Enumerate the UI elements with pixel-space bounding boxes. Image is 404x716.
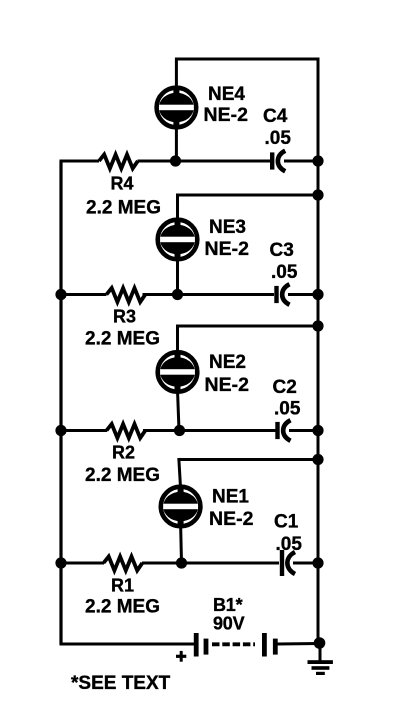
junction on left rail at R3 row bbox=[55, 289, 66, 300]
svg-text:2.2 MEG: 2.2 MEG bbox=[86, 198, 161, 219]
resistor R1 bbox=[104, 557, 143, 571]
label R2 bbox=[112, 443, 135, 463]
label C1 bbox=[274, 512, 299, 533]
label C1 value .05 bbox=[276, 534, 303, 555]
svg-text:R1: R1 bbox=[111, 576, 134, 596]
label R1 value 2.2 MEG bbox=[85, 597, 160, 618]
svg-text:R3: R3 bbox=[113, 307, 136, 327]
capacitor C2 bbox=[275, 420, 290, 441]
label C3 value .05 bbox=[271, 262, 298, 283]
wire: battery to right rail bbox=[277, 642, 320, 646]
svg-text:NE-2: NE-2 bbox=[209, 508, 254, 530]
junction on left rail at R2 row bbox=[55, 425, 66, 436]
wire: NE3 top lead bbox=[176, 194, 179, 223]
wire: node to C2 bbox=[180, 429, 277, 432]
svg-text:NE3: NE3 bbox=[209, 217, 246, 238]
wire: node to C3 bbox=[178, 293, 275, 296]
junction on right rail at NE3 top bbox=[312, 189, 323, 200]
neon lamp NE4 bbox=[157, 87, 197, 129]
svg-text:90V: 90V bbox=[213, 614, 245, 634]
label R3 bbox=[113, 307, 136, 327]
wire: NE2 top wire bbox=[178, 325, 320, 328]
capacitor C3 bbox=[274, 284, 289, 305]
wire: NE1 bottom lead bbox=[179, 524, 183, 563]
resistor R3 bbox=[107, 288, 146, 302]
svg-text:NE-2: NE-2 bbox=[205, 374, 250, 396]
junction on right rail at NE2 top bbox=[312, 320, 323, 331]
label R3 value 2.2 MEG bbox=[85, 329, 160, 350]
wire: R1 row from left rail bbox=[61, 562, 104, 565]
svg-text:C3: C3 bbox=[270, 240, 294, 261]
wire: R4 row from left rail to node bbox=[60, 160, 100, 163]
label R2 value 2.2 MEG bbox=[85, 465, 160, 486]
svg-text:2.2 MEG: 2.2 MEG bbox=[85, 597, 160, 618]
junction on right rail at NE1 top bbox=[312, 454, 323, 465]
svg-text:NE-2: NE-2 bbox=[204, 104, 249, 126]
neon lamp NE3 bbox=[158, 219, 198, 261]
svg-text:*SEE TEXT: *SEE TEXT bbox=[71, 673, 171, 694]
svg-text:R4: R4 bbox=[111, 174, 134, 194]
wire: node to C1 bbox=[182, 562, 280, 565]
label C4 value .05 bbox=[265, 128, 292, 149]
wire: NE1 top lead bbox=[179, 458, 181, 489]
resistor R4 bbox=[99, 155, 138, 169]
wire: R2 row from left rail bbox=[61, 429, 107, 432]
wire: NE3 top wire bbox=[178, 194, 320, 197]
svg-text:NE2: NE2 bbox=[209, 352, 246, 373]
resistor R2 bbox=[107, 424, 146, 438]
wire: NE4 top wire bbox=[176, 58, 319, 61]
junction on right rail at C2 row bbox=[312, 425, 323, 436]
junction node NE2/R2/C2 bbox=[174, 425, 185, 436]
svg-text:2.2 MEG: 2.2 MEG bbox=[85, 465, 160, 486]
battery plus sign bbox=[176, 651, 186, 662]
label NE3 bbox=[209, 217, 246, 238]
svg-text:2.2 MEG: 2.2 MEG bbox=[85, 329, 160, 350]
wire: R3 to NE3 node bbox=[143, 293, 178, 296]
wire: C4 to right rail bbox=[284, 160, 318, 163]
neon lamp NE1 bbox=[161, 486, 201, 528]
wire: bottom wire from left rail to battery bbox=[60, 643, 195, 646]
junction node NE3/R3/C3 bbox=[172, 289, 183, 300]
wire: NE1 top wire bbox=[179, 458, 320, 461]
label 90V bbox=[213, 614, 245, 634]
wire: R2 to NE2 node bbox=[143, 429, 179, 432]
label B1* bbox=[213, 595, 243, 615]
wire: NE4 bottom lead bbox=[175, 125, 178, 161]
junction node NE1/R1/C1 bbox=[176, 557, 187, 568]
svg-text:C2: C2 bbox=[273, 377, 297, 398]
wire: R3 row from left rail bbox=[61, 293, 107, 296]
wire: C2 to right rail bbox=[289, 429, 318, 432]
label C2 value .05 bbox=[274, 399, 301, 420]
svg-text:.05: .05 bbox=[265, 128, 292, 149]
svg-text:NE1: NE1 bbox=[212, 487, 249, 508]
junction on left rail at R1 row bbox=[55, 557, 66, 568]
wire: R4 to NE4 node bbox=[138, 160, 177, 163]
junction node at ground bbox=[314, 637, 326, 649]
svg-text:NE-2: NE-2 bbox=[205, 238, 250, 260]
wire: C1 to right rail bbox=[293, 562, 318, 565]
wire: R1 to NE1 node bbox=[142, 562, 182, 565]
wire: NE4 top lead bbox=[175, 58, 178, 91]
junction on right rail at C4 row bbox=[312, 155, 323, 166]
label NE1 bbox=[212, 487, 249, 508]
battery B1 bbox=[194, 633, 278, 657]
wire: NE2 bottom lead bbox=[178, 390, 180, 431]
label NE-2 (NE4) bbox=[204, 104, 249, 126]
label R4 value 2.2 MEG bbox=[86, 198, 161, 219]
svg-text:.05: .05 bbox=[274, 399, 301, 420]
svg-text:.05: .05 bbox=[271, 262, 298, 283]
svg-text:R2: R2 bbox=[112, 443, 135, 463]
label R1 bbox=[111, 576, 134, 596]
wire: C3 to right rail bbox=[288, 293, 318, 296]
wire: NE3 bottom lead bbox=[176, 257, 179, 295]
label C4 bbox=[263, 106, 288, 127]
svg-text:.05: .05 bbox=[276, 534, 303, 555]
wire: NE2 top lead bbox=[176, 325, 179, 355]
label R4 bbox=[111, 174, 134, 194]
ground bbox=[308, 643, 333, 675]
svg-text:C4: C4 bbox=[263, 106, 288, 127]
wire: right ground rail bbox=[317, 59, 320, 643]
label NE4 bbox=[208, 84, 245, 105]
junction on right rail at C1 row bbox=[312, 557, 323, 568]
label NE-2 (NE2) bbox=[205, 374, 250, 396]
capacitor C4 bbox=[270, 151, 285, 172]
label C3 bbox=[270, 240, 294, 261]
neon lamp NE2 bbox=[158, 351, 198, 393]
svg-text:B1*: B1* bbox=[213, 595, 243, 615]
label NE-2 (NE1) bbox=[209, 508, 254, 530]
label *SEE TEXT bbox=[71, 673, 171, 694]
label NE-2 (NE3) bbox=[205, 238, 250, 260]
svg-text:NE4: NE4 bbox=[208, 84, 245, 105]
capacitor C1 bbox=[280, 550, 295, 576]
svg-text:C1: C1 bbox=[274, 512, 299, 533]
junction node NE4/R4/C4 bbox=[170, 155, 181, 166]
label NE2 bbox=[209, 352, 246, 373]
label C2 bbox=[273, 377, 297, 398]
junction on right rail at C3 row bbox=[312, 289, 323, 300]
wire: left supply rail bbox=[59, 161, 62, 644]
wire: node to C4 bbox=[176, 160, 271, 163]
